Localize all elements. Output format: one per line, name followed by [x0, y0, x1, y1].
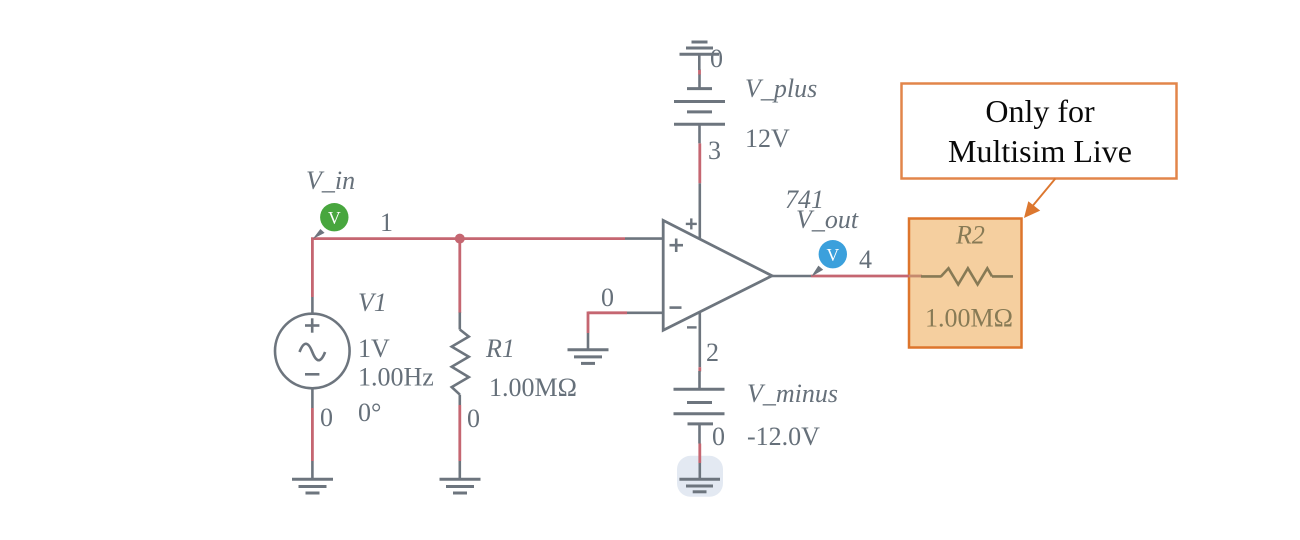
- svg-text:1.00MΩ: 1.00MΩ: [489, 373, 577, 402]
- op-amp input minus sign: [670, 306, 682, 309]
- highlight around bottom ground: [677, 456, 723, 497]
- ground under R1: [440, 479, 481, 493]
- svg-text:V: V: [826, 245, 839, 265]
- svg-text:R2: R2: [955, 221, 985, 250]
- battery V_minus: [674, 371, 725, 444]
- svg-text:3: 3: [708, 136, 721, 165]
- svg-text:2: 2: [706, 338, 719, 367]
- svg-text:0: 0: [712, 422, 725, 451]
- resistor R2: [921, 268, 1013, 284]
- wire node1 vertical from V_in corner to V1 top: [311, 238, 314, 314]
- wire battery V_minus to bottom ground: [698, 444, 701, 464]
- svg-text:V_in: V_in: [306, 166, 355, 195]
- annotation box Only for Multisim Live: [902, 84, 1177, 179]
- svg-text:1.00Hz: 1.00Hz: [358, 363, 434, 392]
- svg-text:1V: 1V: [358, 334, 390, 363]
- svg-text:0: 0: [320, 403, 333, 432]
- svg-text:-12.0V: -12.0V: [747, 422, 820, 451]
- probe V_out (blue): [811, 240, 847, 277]
- wire op-amp V- pin to battery: [698, 312, 701, 371]
- source V1: [275, 314, 350, 389]
- probe V_in (green): [313, 203, 349, 239]
- svg-text:V: V: [328, 208, 341, 228]
- wire R1 bottom to ground: [458, 405, 461, 479]
- svg-text:V_out: V_out: [796, 205, 859, 234]
- annotation arrow to R2 box: [1024, 179, 1055, 219]
- svg-text:V_minus: V_minus: [747, 379, 838, 408]
- ground above V_plus (inverted): [680, 42, 720, 70]
- op-amp input plus sign: [670, 244, 684, 247]
- svg-text:1.00MΩ: 1.00MΩ: [925, 304, 1013, 333]
- highlight box around R2 (Multisim Live only): [909, 219, 1022, 348]
- ground at minus input: [568, 350, 609, 364]
- op-amp U1 741 triangle: [663, 218, 811, 330]
- svg-text:4: 4: [859, 245, 872, 274]
- wire node1 vertical junction to R1: [458, 239, 461, 313]
- ground under V1: [292, 479, 333, 493]
- resistor R1: [452, 313, 469, 406]
- svg-text:V_plus: V_plus: [745, 74, 817, 103]
- svg-text:V1: V1: [358, 288, 387, 317]
- svg-text:Multisim Live: Multisim Live: [948, 133, 1132, 169]
- wire op-amp V+ pin to battery: [698, 143, 701, 239]
- wire V1 bottom to ground: [311, 389, 314, 480]
- junction node 1: [455, 234, 465, 244]
- wire node1 horizontal main: [311, 237, 663, 240]
- svg-text:12V: 12V: [745, 124, 790, 153]
- op-amp output lead: [772, 275, 811, 278]
- ground under V_minus: [679, 463, 720, 492]
- wire node4 output: [811, 275, 922, 278]
- svg-text:0: 0: [467, 404, 480, 433]
- svg-text:Only for: Only for: [985, 93, 1095, 129]
- wire op-amp minus input to ground: [588, 312, 663, 350]
- svg-text:0°: 0°: [358, 398, 381, 427]
- wire battery V_plus to top ground: [698, 70, 701, 75]
- op-amp power minus sign: [687, 326, 697, 328]
- svg-text:1: 1: [380, 208, 393, 237]
- battery V_plus: [674, 74, 725, 143]
- svg-text:0: 0: [601, 283, 614, 312]
- svg-text:R1: R1: [485, 334, 515, 363]
- op-amp power plus sign: [686, 223, 697, 225]
